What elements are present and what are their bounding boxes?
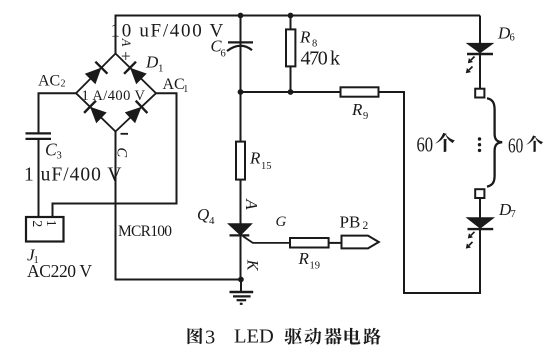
- label R19: [298, 249, 321, 272]
- wire AC1 lead to J1 pin1: [53, 93, 177, 217]
- label PB2: [340, 213, 369, 233]
- LED D6 emission arrows: [466, 57, 475, 74]
- label A anode rotated (bridge): [119, 38, 133, 47]
- node cathode/ground junction: [238, 277, 244, 283]
- svg-text:1: 1: [43, 220, 58, 227]
- label R8: [299, 28, 317, 50]
- svg-text:4: 4: [209, 215, 215, 227]
- label C6 value 10 uF/400 V: [111, 21, 225, 42]
- svg-text:G: G: [276, 214, 287, 230]
- wire AC2 lead to C3: [39, 93, 78, 133]
- svg-text:6: 6: [221, 49, 226, 60]
- svg-text:7: 7: [511, 209, 516, 220]
- capacitor C3: [26, 133, 52, 139]
- svg-text:15: 15: [261, 161, 272, 172]
- resistor R15: [236, 92, 245, 224]
- svg-text:R: R: [249, 149, 261, 168]
- svg-text:+: +: [121, 47, 131, 66]
- caption 电: [345, 328, 361, 345]
- label G gate: [276, 214, 287, 230]
- label K cathode rotated (SCR): [244, 259, 261, 272]
- wire bridge C output to cathode junction: [116, 131, 242, 280]
- LED string bottom terminal square: [475, 189, 484, 198]
- svg-text:3: 3: [57, 151, 62, 162]
- LED D7: [466, 198, 496, 294]
- svg-text:AC220 V: AC220 V: [27, 261, 92, 281]
- svg-text:PB: PB: [340, 213, 361, 232]
- svg-text:19: 19: [310, 261, 321, 272]
- label - polarity: [121, 133, 129, 135]
- label 60 left: [417, 132, 434, 156]
- bridge diode top-left: [85, 62, 108, 85]
- wire R9 to LED string return: [379, 92, 481, 293]
- label C6: [211, 37, 226, 60]
- LED D6: [466, 16, 495, 90]
- svg-text:A: A: [242, 198, 261, 210]
- svg-text:R: R: [299, 28, 311, 47]
- svg-text:470 k: 470 k: [301, 48, 341, 70]
- thyristor Q4 MCR100: [228, 224, 251, 280]
- svg-text:R: R: [351, 100, 363, 119]
- ellipsis dots for 60 LEDs: [478, 137, 481, 152]
- caption 动: [304, 328, 321, 345]
- label R9: [351, 100, 368, 122]
- node C6 bottom: [238, 89, 244, 95]
- wire C3 to J1 pin2: [38, 139, 40, 218]
- LED string top terminal square: [475, 89, 484, 98]
- label 个 left: [435, 133, 454, 152]
- node C6 top: [238, 13, 244, 19]
- wire gate: [243, 236, 291, 243]
- label C3 value 1 uF/400 V: [24, 165, 123, 186]
- caption LED: [234, 326, 274, 348]
- svg-text:A: A: [119, 38, 133, 47]
- resistor R9: [341, 87, 379, 96]
- label AC2: [38, 73, 66, 90]
- label MCR100: [118, 223, 172, 240]
- wire mid rail: [241, 91, 341, 93]
- svg-text:AC: AC: [38, 73, 60, 90]
- label bridge value 1 A/400 V: [82, 88, 146, 104]
- bridge diode top-right: [124, 62, 147, 85]
- svg-text:C: C: [45, 140, 57, 160]
- J1 pin 2 label: [29, 220, 44, 227]
- capacitor C6: [227, 42, 253, 51]
- brace for 60 LEDs: [487, 98, 502, 186]
- svg-text:Q: Q: [197, 205, 209, 224]
- wire top rail (+) from bridge A to D6: [116, 15, 481, 17]
- svg-text:R: R: [298, 249, 310, 268]
- svg-text:D: D: [145, 53, 159, 72]
- svg-text:60: 60: [508, 133, 523, 157]
- wire C6 column: [240, 16, 242, 93]
- PB2 signal flag: [342, 236, 379, 249]
- node R8 bottom: [288, 89, 294, 95]
- connector J1 box: [26, 217, 64, 242]
- svg-text:K: K: [244, 259, 261, 272]
- LED D7 emission arrows: [466, 232, 475, 249]
- svg-text:60: 60: [417, 132, 434, 156]
- label 个 right: [526, 136, 543, 152]
- svg-text:2: 2: [61, 79, 66, 90]
- label D1: [145, 53, 164, 75]
- label C3: [45, 140, 62, 162]
- bridge diode bottom-right: [125, 101, 148, 124]
- caption 图: [187, 328, 202, 344]
- label J1 value AC220 V: [27, 261, 92, 281]
- svg-text:C: C: [114, 148, 130, 158]
- label Q4: [197, 205, 215, 227]
- resistor R8: [286, 16, 295, 93]
- caption 3: [205, 327, 215, 349]
- label + polarity: [121, 47, 131, 66]
- svg-text:AC: AC: [163, 76, 185, 93]
- svg-text:1 uF/400 V: 1 uF/400 V: [24, 165, 123, 186]
- bridge diode bottom-left: [84, 101, 107, 124]
- caption 驱: [285, 328, 302, 345]
- caption 器: [324, 328, 341, 345]
- wire bridge top lead: [115, 15, 117, 55]
- resistor R19: [290, 238, 342, 248]
- svg-text:9: 9: [363, 111, 368, 122]
- bridge rectifier D1 diamond: [76, 54, 156, 132]
- svg-text:6: 6: [510, 33, 515, 44]
- svg-text:MCR100: MCR100: [118, 223, 172, 240]
- ground: [230, 280, 254, 304]
- label R8 value 470 k: [301, 48, 341, 70]
- label D6: [497, 24, 515, 44]
- label D7: [498, 200, 516, 220]
- svg-text:LED: LED: [234, 326, 274, 348]
- J1 pin 1 label: [43, 220, 58, 227]
- svg-text:1 A/400 V: 1 A/400 V: [82, 88, 146, 104]
- svg-text:2: 2: [363, 220, 369, 232]
- label C cathode rotated (bridge): [114, 148, 130, 158]
- svg-text:1: 1: [183, 84, 188, 95]
- node R8 top: [288, 13, 294, 19]
- label 60 right: [508, 133, 523, 157]
- label AC1: [163, 76, 189, 95]
- label R15: [249, 149, 272, 173]
- svg-text:1: 1: [158, 63, 164, 75]
- caption 路: [363, 328, 380, 345]
- svg-text:2: 2: [29, 220, 44, 227]
- label A anode rotated (SCR): [242, 198, 261, 210]
- label J1: [27, 246, 39, 267]
- svg-text:3: 3: [205, 327, 215, 349]
